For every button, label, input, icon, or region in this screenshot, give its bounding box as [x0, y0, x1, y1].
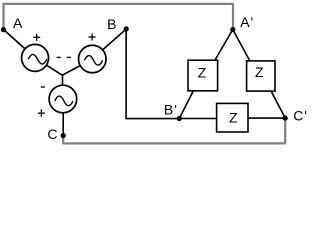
svg-text:B': B' [164, 102, 178, 118]
svg-text:Z: Z [229, 109, 238, 125]
svg-text:C: C [47, 126, 57, 142]
svg-text:C': C' [293, 108, 307, 124]
svg-text:A: A [13, 15, 23, 31]
svg-text:Z: Z [198, 65, 207, 81]
svg-text:A': A' [240, 14, 254, 30]
svg-text:Z: Z [255, 64, 264, 80]
svg-text:B: B [107, 16, 116, 32]
